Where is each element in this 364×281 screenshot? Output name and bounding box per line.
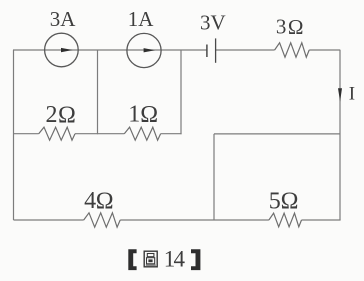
caption text 14 bbox=[164, 246, 186, 271]
current source I1 3A (circle) bbox=[45, 33, 79, 67]
wire: vertical drop to bottom row bbox=[213, 134, 215, 220]
resistor R2 2-ohm zigzag bbox=[39, 127, 75, 140]
svg-text:1A: 1A bbox=[128, 7, 155, 31]
caption left lenticular bracket bbox=[128, 249, 136, 270]
label 3A bbox=[50, 7, 77, 31]
wire: bottom horizontal (4-ohm to 5-ohm) bbox=[120, 219, 269, 221]
resistor R5 5-ohm zigzag bbox=[269, 213, 302, 227]
wire: bottom horizontal (left corner to 4-ohm) bbox=[14, 219, 84, 221]
wire: middle-right row bbox=[214, 133, 340, 135]
wire: left vertical bbox=[13, 50, 15, 220]
label 2-ohm bbox=[46, 102, 76, 128]
wire: vertical riser right of 1A source bbox=[180, 50, 182, 134]
label 1-ohm bbox=[128, 102, 158, 128]
wire: right vertical bbox=[339, 50, 341, 220]
svg-text:I: I bbox=[349, 83, 355, 104]
svg-text:Ω: Ω bbox=[288, 15, 304, 39]
label 1A bbox=[128, 7, 155, 31]
resistor R1 1-ohm zigzag bbox=[124, 127, 160, 140]
svg-text:4: 4 bbox=[174, 246, 186, 271]
svg-text:Ω: Ω bbox=[96, 188, 114, 214]
current source I2 1A (circle) bbox=[127, 33, 161, 67]
svg-text:5: 5 bbox=[269, 189, 281, 215]
svg-text:2: 2 bbox=[46, 102, 58, 128]
wire: top horizontal (3-ohm resistor to top-right corner) bbox=[309, 49, 340, 51]
label 3-ohm bbox=[276, 15, 304, 39]
svg-text:Ω: Ω bbox=[58, 102, 76, 128]
label 3V bbox=[200, 11, 226, 35]
label 4-ohm bbox=[84, 188, 113, 214]
wire: middle-left row (left wire to 2-ohm) bbox=[14, 133, 39, 135]
caption character tu (figure) outer box bbox=[144, 251, 157, 267]
wire: bottom horizontal (5-ohm to bottom-right corner) bbox=[302, 219, 341, 221]
svg-text:Ω: Ω bbox=[281, 189, 299, 215]
resistor R3 3-ohm zigzag bbox=[275, 43, 310, 57]
svg-text:4: 4 bbox=[84, 188, 96, 214]
wire: top horizontal (battery to 3-ohm resistor) bbox=[216, 49, 275, 51]
label 5-ohm bbox=[269, 189, 299, 215]
battery V1 3V: long positive plate bbox=[215, 38, 217, 62]
label I bbox=[349, 83, 355, 104]
wire: middle-left row (2-ohm to 1-ohm) bbox=[75, 133, 124, 135]
caption right lenticular bracket bbox=[191, 249, 200, 270]
wire: vertical riser between sources (junction node) bbox=[97, 50, 99, 134]
svg-text:1: 1 bbox=[128, 102, 140, 128]
wire: top horizontal (left of battery) bbox=[13, 49, 207, 51]
resistor R4 4-ohm zigzag bbox=[84, 213, 121, 227]
svg-text:Ω: Ω bbox=[140, 102, 158, 128]
wire: middle-left row (1-ohm to riser) bbox=[161, 133, 182, 135]
current arrow I on right wire bbox=[338, 88, 342, 101]
battery V1 3V: short negative plate bbox=[206, 45, 208, 58]
svg-text:3: 3 bbox=[276, 15, 287, 39]
svg-text:3A: 3A bbox=[50, 7, 77, 31]
svg-text:3V: 3V bbox=[200, 11, 226, 35]
